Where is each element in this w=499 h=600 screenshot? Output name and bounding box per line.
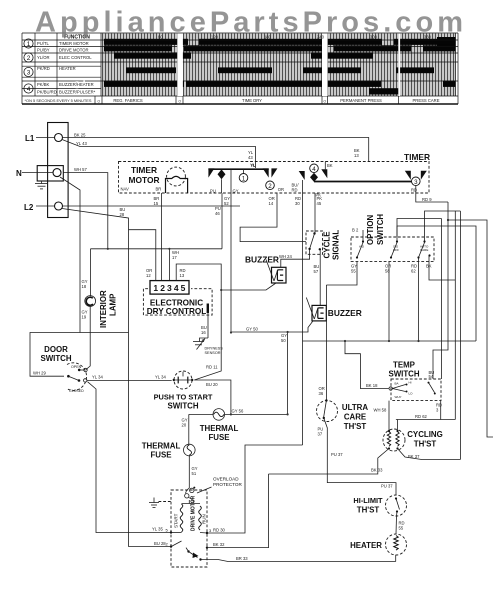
svg-text:DOOR: DOOR bbox=[44, 345, 68, 354]
svg-text:NAV: NAV bbox=[121, 187, 130, 192]
svg-text:55: 55 bbox=[399, 526, 404, 531]
timer box bbox=[119, 162, 430, 194]
svg-text:52: 52 bbox=[224, 201, 229, 206]
wire option contact2 riser bbox=[388, 262, 390, 341]
svg-text:BR: BR bbox=[156, 187, 162, 192]
svg-text:PU/TL: PU/TL bbox=[37, 41, 50, 46]
row4a buzzer/heater cam bars bbox=[104, 81, 184, 87]
svg-text:20: 20 bbox=[182, 423, 187, 428]
cam diamond PU 46 bbox=[218, 169, 226, 179]
table grid lines bbox=[22, 33, 458, 104]
wire YL 35 branch down to motor bbox=[88, 382, 172, 533]
dryness sensor bbox=[200, 338, 209, 342]
svg-text:SWITCH: SWITCH bbox=[40, 354, 71, 363]
motor centrifugal switch bbox=[187, 550, 189, 552]
svg-text:3: 3 bbox=[209, 528, 212, 533]
circled row numbers bbox=[24, 39, 33, 93]
svg-text:FUSE: FUSE bbox=[150, 451, 171, 460]
wire BR 15 timer to control pin 2 bbox=[161, 193, 163, 281]
chart rows 1a/1b right black block bbox=[437, 37, 456, 50]
wire PU 46 timer motor to neutral bbox=[221, 193, 223, 249]
timer motor symbol bbox=[167, 167, 186, 186]
svg-text:AppliancePartsPros.com: AppliancePartsPros.com bbox=[35, 7, 463, 39]
ground at motor bbox=[159, 501, 172, 503]
timer cam contact bar (cams 1 and 2) bbox=[208, 168, 268, 170]
svg-text:58: 58 bbox=[385, 269, 390, 274]
svg-text:14: 14 bbox=[269, 201, 274, 206]
svg-text:4: 4 bbox=[174, 283, 179, 293]
option switch box bbox=[351, 237, 434, 262]
wire option contact1 to ultra care bbox=[326, 262, 357, 285]
svg-text:PERMANENT PRESS: PERMANENT PRESS bbox=[340, 98, 382, 103]
timer cam contact circled 3 bbox=[405, 171, 411, 180]
ultra care thermostat bbox=[317, 401, 338, 422]
svg-text:TH'ST: TH'ST bbox=[357, 506, 380, 515]
svg-text:2: 2 bbox=[268, 183, 272, 190]
svg-text:BK 32: BK 32 bbox=[213, 542, 225, 547]
electronic dry control terminal strip bbox=[150, 281, 189, 295]
svg-text:FUSE: FUSE bbox=[208, 433, 229, 442]
drive motor box bbox=[171, 490, 207, 567]
wire L2 branch BU down bbox=[62, 209, 129, 547]
svg-text:TH'ST: TH'ST bbox=[344, 422, 367, 431]
svg-text:GY: GY bbox=[233, 188, 239, 193]
svg-text:BK 33: BK 33 bbox=[371, 468, 383, 473]
terminal L2 bbox=[55, 202, 63, 210]
wire RD 62 bus bbox=[454, 211, 456, 420]
wire BK 37 cycling to bus bbox=[398, 449, 461, 460]
svg-text:BK 37: BK 37 bbox=[408, 454, 420, 459]
terminal N bbox=[37, 166, 63, 181]
svg-text:YL: YL bbox=[251, 163, 257, 168]
svg-text:5: 5 bbox=[181, 283, 186, 293]
svg-text:N: N bbox=[16, 169, 22, 178]
row1b drive motor cam bars bbox=[104, 45, 172, 51]
svg-text:PK/BK: PK/BK bbox=[37, 82, 50, 87]
wire N branch to door switch bbox=[60, 177, 80, 333]
row1a timer motor cam bars bbox=[104, 39, 456, 95]
svg-text:5: 5 bbox=[166, 528, 169, 533]
chart hatch background bbox=[101, 34, 456, 97]
svg-text:DRY CONTROL: DRY CONTROL bbox=[147, 307, 207, 316]
svg-text:WH 57: WH 57 bbox=[74, 167, 87, 172]
row3 heater cam bars bbox=[126, 67, 176, 73]
wire color codes bbox=[37, 41, 57, 94]
push to start switch bbox=[174, 371, 192, 389]
wire RD 30 motor run to option switch bbox=[207, 445, 303, 533]
svg-text:15: 15 bbox=[154, 201, 159, 206]
svg-text:BUZZER: BUZZER bbox=[245, 255, 279, 265]
svg-text:*ON 5 SECONDS EVERY 5 MINUTES: *ON 5 SECONDS EVERY 5 MINUTES bbox=[25, 98, 92, 103]
right bus ties bbox=[397, 219, 442, 242]
svg-text:2: 2 bbox=[166, 542, 169, 547]
svg-text:PUSH TO START: PUSH TO START bbox=[154, 393, 213, 402]
svg-text:LAMP: LAMP bbox=[109, 294, 118, 316]
svg-text:51: 51 bbox=[192, 471, 197, 476]
node WH junction bbox=[107, 248, 109, 250]
cam 4 right contact (BK feed) bbox=[321, 169, 327, 178]
svg-text:PRESS CARE: PRESS CARE bbox=[413, 98, 440, 103]
svg-text:THERMAL: THERMAL bbox=[200, 424, 239, 433]
thermal fuse (lower) bbox=[184, 444, 196, 456]
wire RD 13 pin 4 riser bbox=[176, 264, 221, 380]
wire L2 run bbox=[63, 205, 241, 207]
svg-text:3: 3 bbox=[414, 179, 418, 186]
bottom cycle-section row bbox=[25, 98, 440, 103]
svg-text:HEATER: HEATER bbox=[350, 541, 382, 550]
svg-text:12: 12 bbox=[146, 273, 151, 278]
wire OR 12 to pin 1 bbox=[129, 230, 156, 281]
svg-text:50: 50 bbox=[281, 338, 286, 343]
wire GY 56 branch down bbox=[287, 332, 289, 414]
svg-text:TH'ST: TH'ST bbox=[414, 440, 437, 449]
svg-text:18: 18 bbox=[82, 284, 87, 289]
svg-text:BUZZER: BUZZER bbox=[328, 308, 362, 318]
cycling thermostat bbox=[383, 429, 405, 451]
cam 4 left contact (RD 30 stem) bbox=[299, 171, 305, 180]
svg-text:WH 58: WH 58 bbox=[374, 408, 387, 413]
wire WH 58 temp to cycling bbox=[388, 401, 390, 431]
heater bbox=[386, 534, 407, 555]
svg-text:WHY: WHY bbox=[395, 395, 402, 399]
svg-text:OVERLOAD: OVERLOAD bbox=[213, 477, 239, 482]
svg-text:SWITCH: SWITCH bbox=[376, 214, 385, 245]
svg-text:BA: BA bbox=[395, 381, 399, 385]
wire BK 33 cycling to motor loop bbox=[269, 449, 390, 475]
wire GY 50 buzzer 2 return bbox=[231, 321, 313, 332]
svg-text:1: 1 bbox=[27, 41, 31, 48]
svg-text:2: 2 bbox=[160, 283, 165, 293]
svg-text:ULTRA: ULTRA bbox=[342, 403, 368, 412]
svg-text:YL/OR: YL/OR bbox=[37, 55, 50, 60]
svg-text:YL 43: YL 43 bbox=[76, 141, 87, 146]
thermal fuse (upper) bbox=[213, 409, 225, 421]
svg-text:HI: HI bbox=[409, 381, 412, 385]
wire RD 30 timer to option switch feed bbox=[302, 193, 304, 445]
wire WH 24 buzzer to cycle signal bbox=[281, 250, 310, 267]
wire buzzer 1 to dry control bbox=[221, 283, 276, 290]
svg-text:START: START bbox=[174, 513, 179, 528]
svg-text:BUZZER/PULSER*: BUZZER/PULSER* bbox=[59, 90, 96, 95]
cycle signal switch bbox=[313, 232, 315, 234]
svg-text:RUN: RUN bbox=[202, 514, 207, 524]
svg-text:HI-LIMIT: HI-LIMIT bbox=[353, 496, 383, 505]
svg-text:RD: RD bbox=[292, 188, 298, 193]
wire GY 51 bbox=[188, 456, 190, 488]
option switch contact 1 bbox=[356, 256, 358, 258]
interior lamp bbox=[90, 249, 92, 296]
svg-text:YL 34: YL 34 bbox=[92, 375, 103, 380]
svg-text:55: 55 bbox=[351, 269, 356, 274]
svg-text:DRIVE MOTOR: DRIVE MOTOR bbox=[59, 48, 88, 53]
svg-text:PU 37: PU 37 bbox=[381, 483, 393, 488]
wire WH 17 to control pin 3 bbox=[168, 249, 170, 281]
svg-text:3: 3 bbox=[167, 283, 172, 293]
svg-text:1: 1 bbox=[153, 283, 158, 293]
wire heater to BR 33 bbox=[395, 555, 397, 562]
svg-text:30: 30 bbox=[295, 201, 300, 206]
svg-text:WH 29: WH 29 bbox=[33, 371, 46, 376]
svg-text:CLOSED: CLOSED bbox=[69, 389, 84, 393]
svg-text:DRYNESS: DRYNESS bbox=[205, 347, 224, 351]
svg-text:PU 37: PU 37 bbox=[331, 452, 343, 457]
wire BU 20 bbox=[194, 380, 231, 414]
svg-text:THERMAL: THERMAL bbox=[142, 442, 181, 451]
timer sequence chart table bbox=[22, 33, 458, 104]
cam stem GY 52 bbox=[230, 169, 232, 193]
wire BU 16 to dryness sensor bbox=[207, 313, 209, 339]
wire RD 9 bus down to temp switch bbox=[433, 202, 448, 379]
svg-text:HEATER: HEATER bbox=[59, 66, 76, 71]
svg-text:BUZZER/HEATER: BUZZER/HEATER bbox=[59, 82, 94, 87]
svg-text:3: 3 bbox=[27, 70, 31, 77]
svg-text:RD 9: RD 9 bbox=[422, 197, 432, 202]
wire YL 43 (L1 to timer) bbox=[62, 140, 256, 169]
svg-text:BK 25: BK 25 bbox=[74, 132, 86, 137]
terminal block bbox=[48, 123, 69, 218]
wire RD 9 from timer cam 3 bbox=[416, 186, 448, 202]
temp switch right pole bbox=[428, 382, 430, 384]
electronic dry control box bbox=[143, 289, 212, 315]
svg-text:CYCLING: CYCLING bbox=[407, 430, 443, 439]
row2 elec control cam bars bbox=[114, 52, 191, 58]
svg-text:17: 17 bbox=[172, 255, 177, 260]
svg-text:O: O bbox=[97, 100, 100, 104]
svg-text:BK: BK bbox=[327, 163, 333, 168]
wire GY 52 timer cam1 down bbox=[230, 193, 232, 333]
row4b buzzer/pulser cam bars bbox=[369, 88, 400, 94]
cam diamond 4 bbox=[310, 173, 318, 182]
svg-text:2: 2 bbox=[27, 55, 31, 62]
svg-text:62: 62 bbox=[411, 269, 416, 274]
wire option contact3 to BK bus bbox=[418, 258, 420, 342]
svg-text:MOTOR: MOTOR bbox=[128, 175, 159, 185]
wire to buzzer 2 bbox=[319, 249, 321, 305]
node circled 2 bbox=[266, 181, 275, 190]
svg-text:BK 18: BK 18 bbox=[366, 383, 378, 388]
svg-text:REG. FABRICS: REG. FABRICS bbox=[113, 98, 143, 103]
svg-text:PK/RD: PK/RD bbox=[37, 66, 50, 71]
cycle section separators bbox=[177, 34, 183, 97]
svg-text:BU 28: BU 28 bbox=[154, 541, 166, 546]
wire YL 34 door to push-to-start bbox=[87, 379, 172, 381]
svg-text:46: 46 bbox=[215, 211, 220, 216]
wire lamp to door switch open contact bbox=[86, 306, 90, 370]
svg-text:19: 19 bbox=[82, 315, 87, 320]
svg-text:4: 4 bbox=[27, 86, 31, 93]
svg-text:OPEN: OPEN bbox=[71, 365, 82, 369]
wire option contact1 top stub bbox=[362, 230, 364, 242]
svg-text:B 2: B 2 bbox=[352, 228, 359, 233]
svg-text:LO: LO bbox=[409, 392, 414, 396]
cycle signal box bbox=[306, 231, 323, 254]
svg-text:OFF: OFF bbox=[393, 248, 399, 252]
svg-text:INTERIOR: INTERIOR bbox=[99, 290, 108, 328]
terminal L1 bbox=[55, 134, 63, 142]
svg-text:TEMP: TEMP bbox=[393, 361, 415, 370]
svg-text:BU 20: BU 20 bbox=[206, 382, 218, 387]
svg-text:CYCLE: CYCLE bbox=[323, 231, 332, 259]
wire BK 18 into temp switch bbox=[345, 341, 389, 389]
svg-text:TIMER MOTOR: TIMER MOTOR bbox=[59, 41, 89, 46]
svg-text:OPTION: OPTION bbox=[366, 214, 375, 245]
svg-text:L2: L2 bbox=[24, 203, 34, 212]
neutral rail to lamp / control bbox=[91, 248, 223, 250]
svg-text:PK/BU/RD: PK/BU/RD bbox=[37, 90, 57, 95]
svg-text:CARE: CARE bbox=[344, 413, 366, 422]
svg-text:43: 43 bbox=[248, 155, 253, 160]
motor internal ties bbox=[182, 503, 201, 505]
svg-text:37: 37 bbox=[318, 432, 323, 437]
svg-text:GY 56: GY 56 bbox=[232, 409, 244, 414]
hi-limit thermostat bbox=[386, 495, 407, 516]
node circled 1 bbox=[243, 169, 245, 173]
svg-text:YL 35: YL 35 bbox=[152, 527, 163, 532]
svg-text:YL 34: YL 34 bbox=[155, 375, 166, 380]
svg-text:28: 28 bbox=[120, 212, 125, 217]
svg-text:OR: OR bbox=[278, 187, 284, 192]
svg-text:57: 57 bbox=[314, 269, 319, 274]
function names bbox=[59, 41, 96, 94]
svg-text:SENSOR: SENSOR bbox=[205, 351, 221, 355]
svg-text:CARE: CARE bbox=[420, 248, 428, 252]
svg-text:GY 50: GY 50 bbox=[246, 327, 258, 332]
svg-text:TIMER: TIMER bbox=[404, 152, 430, 162]
svg-text:13: 13 bbox=[354, 153, 359, 158]
svg-text:54: 54 bbox=[429, 374, 434, 379]
svg-text:O: O bbox=[178, 100, 181, 104]
wire WH 57 (N feed) bbox=[63, 173, 108, 249]
svg-text:A/D: A/D bbox=[359, 245, 365, 249]
wire RD 62 horizontal bbox=[396, 419, 455, 421]
wire BU 28 into motor bbox=[129, 546, 172, 548]
svg-text:BR 33: BR 33 bbox=[236, 556, 248, 561]
svg-text:RD 62: RD 62 bbox=[415, 414, 428, 419]
ground at terminal block bbox=[35, 181, 48, 189]
svg-text:1: 1 bbox=[242, 176, 246, 183]
svg-text:PU: PU bbox=[210, 188, 216, 193]
option switch contact 2 bbox=[390, 256, 392, 258]
svg-text:SWITCH: SWITCH bbox=[388, 370, 419, 379]
wire BK 32 motor to right bus bbox=[207, 474, 269, 548]
wire PK 45 timer cam4 to cycle signal bbox=[314, 193, 316, 234]
wire option contact2 top bbox=[397, 226, 476, 341]
wire PU 37 to hi-limit bbox=[324, 418, 396, 495]
svg-text:RD 11: RD 11 bbox=[206, 365, 218, 370]
svg-text:L1: L1 bbox=[25, 134, 35, 143]
svg-text:ELEC CONTROL: ELEC CONTROL bbox=[59, 55, 92, 60]
svg-text:45: 45 bbox=[317, 201, 322, 206]
cam bar right contacts bbox=[263, 168, 269, 177]
buzzer 2 bbox=[312, 305, 326, 321]
svg-text:13: 13 bbox=[180, 273, 185, 278]
svg-text:4: 4 bbox=[312, 166, 316, 173]
option switch contact 3 bbox=[417, 256, 419, 258]
svg-text:DRIVE MOTOR: DRIVE MOTOR bbox=[191, 495, 197, 531]
svg-text:PU/BY: PU/BY bbox=[37, 48, 50, 53]
wire GY 20 bbox=[188, 414, 190, 444]
svg-text:WH 24: WH 24 bbox=[279, 254, 292, 259]
wire RD 55 hi-limit to heater bbox=[395, 516, 398, 534]
wire OR 14 timer cam2 to cycle signal bbox=[240, 193, 306, 242]
svg-text:3: 3 bbox=[436, 408, 439, 413]
svg-text:SWITCH: SWITCH bbox=[167, 402, 198, 411]
wire BK 25 (L1 to timer) bbox=[63, 138, 369, 162]
timer thick bus line cam4 to cam3 bbox=[314, 181, 416, 183]
svg-text:RD 30: RD 30 bbox=[213, 528, 226, 533]
wire BR 33 centrifugal to heater bbox=[201, 560, 396, 562]
motor run winding bbox=[199, 506, 202, 530]
svg-text:36: 36 bbox=[319, 391, 324, 396]
svg-text:16: 16 bbox=[201, 330, 206, 335]
svg-text:TIME DRY: TIME DRY bbox=[242, 98, 262, 103]
node circled 4 bbox=[310, 164, 319, 173]
svg-text:O: O bbox=[323, 100, 326, 104]
svg-text:PROTECTOR: PROTECTOR bbox=[213, 482, 242, 487]
svg-text:TIMER: TIMER bbox=[131, 165, 157, 175]
svg-text:SIGNAL: SIGNAL bbox=[332, 230, 341, 260]
wire OR 36 to ultra care thermostat bbox=[325, 285, 327, 401]
wire BK 13 drop into timer bbox=[324, 162, 326, 170]
